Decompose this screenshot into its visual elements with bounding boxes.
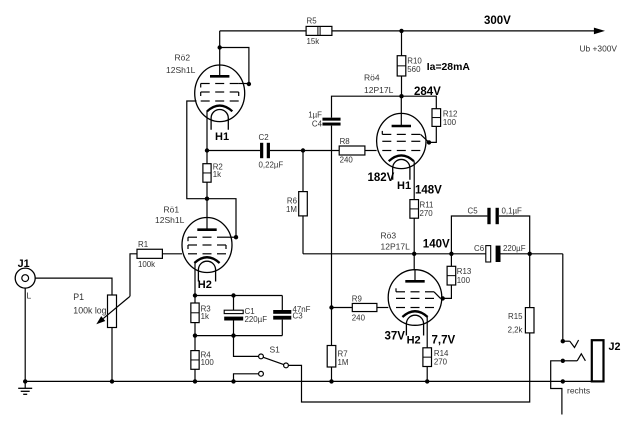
label Ia=28mA [427,62,471,73]
label R9 [352,295,363,304]
label 12P17L Ro3 [381,241,411,251]
svg-text:R8: R8 [340,137,351,146]
capacitor C5 [487,208,498,224]
label Ro2 [175,53,191,63]
label R10 [407,56,422,65]
connector J1 [15,268,35,288]
svg-text:148V: 148V [415,185,442,197]
wire R7 to ground bus [331,367,333,381]
label 240 R8 [340,155,354,164]
label R3 [201,304,212,313]
svg-text:R9: R9 [352,295,363,304]
tube U-Ro2 12Sh1L [195,65,245,130]
label 240 R9 [352,313,366,322]
svg-text:J1: J1 [18,258,30,270]
wire R8 to Ro4 g1 [365,150,377,152]
wire S1 lower contact to bus [234,374,259,382]
resistor R7 [327,346,336,368]
label J1 [18,258,30,270]
resistor R6 [299,192,308,216]
wire cathode node to R2 [206,151,208,164]
svg-text:H2: H2 [198,279,212,291]
label C1 [245,307,255,316]
wire Ro2 anode to 300V rail [219,31,221,65]
label 2,2k [508,325,523,334]
wire C2 to R8 [270,150,339,152]
junction dot Ro4 g2 [427,140,431,144]
svg-text:182V: 182V [368,172,395,184]
wire Ro1 anode lead [206,199,208,218]
wire J1 to P1 [35,278,112,295]
wire 300V rail R5 to arrow [332,30,595,32]
label J2 [609,341,621,353]
resistor R2 [203,164,211,183]
svg-text:100k log: 100k log [73,306,106,316]
wire R4 to bus [194,369,196,381]
svg-text:1k: 1k [213,170,221,179]
wire R1 to P1 wiper [130,254,137,296]
wire 284V node to C4 [332,96,402,117]
svg-text:300V: 300V [484,15,511,27]
wire R9 to Ro3 g1 [377,307,388,309]
svg-text:100: 100 [443,118,457,127]
label 12Sh1L Ro1 [155,215,185,225]
label 1k R2 [213,170,221,179]
label 37V [385,331,406,343]
svg-text:12P17L: 12P17L [364,85,394,95]
label 300V [484,15,511,27]
svg-text:15k: 15k [307,37,320,46]
label 100k R1 [138,260,155,269]
resistor R11 [410,200,419,219]
wire C3 bottom stub [281,320,283,336]
wire J2 ring to other channel [551,361,562,415]
resistor R14 [423,348,432,367]
wire R15 top to 140V node [529,254,531,308]
wire P1 to bus [111,328,113,382]
label L [27,290,32,300]
wire J1 to ground [24,288,26,381]
svg-text:R15: R15 [508,312,523,321]
svg-text:0,1µF: 0,1µF [502,206,523,215]
wire ground bus [25,380,592,382]
junction dot Ro1 g2 [234,235,238,239]
wire R6 to 140V wire [302,216,304,254]
label 7,7V [432,334,456,346]
junction dot Ro2 anode strap [218,45,222,49]
wire R1 to Ro1 g1 [162,253,182,255]
tube U-Ro3 12P17L [388,270,442,336]
resistor R10 [397,56,406,76]
wire C2 node to R6 [302,151,304,192]
capacitor C6 electrolytic [486,246,501,262]
svg-text:R5: R5 [307,16,318,25]
svg-text:220µF: 220µF [503,244,526,253]
wire C1 node to S1 [234,336,259,357]
label C2 [259,133,269,142]
wire Ro2 g1 to Ro1 anode node [187,101,236,237]
label R15 [508,312,523,321]
label R4 [201,350,212,359]
svg-text:S1: S1 [270,344,281,354]
switch S1 blade [263,357,283,364]
label 182V [368,172,395,184]
tube U-Ro4 12P17L [377,113,426,179]
wire C5 to R15 node [499,216,530,254]
wire R13 to Ro3 g2 [434,285,451,298]
label 47nF [293,305,311,314]
junction dot C1 top [231,293,235,297]
label 220uF C1 [245,315,268,324]
label R6 [287,196,298,205]
junction dot R3/R4 node [193,333,197,337]
wire R12 to tube Ro4 g2 [421,126,437,142]
label 15k [307,37,320,46]
svg-text:Rö2: Rö2 [175,53,191,63]
junction dot C5 left branch [449,252,453,256]
label 0,1uF [502,206,523,215]
wire Ro2 cathode lead [206,111,208,151]
wire Ro1 cathode lead [194,263,196,296]
label 0,22uF [259,160,284,169]
wire bottom node to C3 [195,335,282,337]
label 1M [338,358,349,367]
label 1k R3 [201,312,209,321]
resistor R15 [525,308,534,333]
wire R11 to 140V node [413,218,415,254]
label R7 [338,349,348,358]
label 148V [415,185,442,197]
label 1M R6 [286,205,297,214]
label H2 Ro1 [198,279,212,291]
svg-text:1k: 1k [201,312,209,321]
svg-text:1µF: 1µF [308,110,322,119]
wire 140V to R13 [450,254,452,266]
label 220uF C6 [503,244,526,253]
wire cathode node to C3 [195,295,282,297]
junction dot S1/bus [231,379,235,383]
wire C1 bottom stub [233,321,235,336]
junction dot Ro2 cathode [205,148,209,152]
resistor R4 [191,351,199,370]
wire 284V node to R12 [402,96,437,109]
svg-text:0,22µF: 0,22µF [259,160,284,169]
label 100 R13 [457,276,471,285]
label Ub +300V [580,44,618,54]
junction dot R4/bus [193,379,197,383]
label H1 Ro2 [215,131,229,143]
junction dot 284V node [399,94,403,98]
junction dot 300V/R10 [399,29,403,33]
svg-text:H1: H1 [397,180,411,192]
resistor R3 [191,303,199,323]
svg-text:C3: C3 [293,312,304,321]
svg-text:rechts: rechts [567,386,590,396]
svg-text:R6: R6 [287,196,298,205]
label R8 [340,137,351,146]
svg-text:1M: 1M [286,205,297,214]
svg-text:140V: 140V [423,239,450,251]
svg-text:R11: R11 [420,201,434,210]
resistor R13 [447,266,456,285]
label C3 [293,312,304,321]
jack J2 body [592,340,604,381]
junction dot Ro1 cathode [193,293,197,297]
resistor R1 [137,249,162,258]
svg-text:12Sh1L: 12Sh1L [166,65,196,75]
label S1 [270,344,281,354]
junction dot J1/bus [23,379,27,383]
junction dot J2 sleeve [561,379,565,383]
label 284V [414,86,441,98]
potentiometer P1 [96,295,130,328]
tube U-Ro1 12Sh1L [182,218,232,282]
svg-text:C6: C6 [474,244,485,253]
wire C3 top stub [281,296,283,311]
svg-text:L: L [27,290,32,300]
svg-text:Rö3: Rö3 [381,230,397,240]
wire C6 to J2 corner [501,253,563,255]
svg-text:1M: 1M [338,358,349,367]
svg-text:R7: R7 [338,349,348,358]
label Ro1 [164,205,180,215]
label Ro3 [381,230,397,240]
wire R3 to bottom node [194,323,196,336]
label R5 [307,16,318,25]
junction dot Ro1 anode [205,197,209,201]
svg-text:R13: R13 [457,267,472,276]
switch S1 common contact [284,363,289,368]
arrowhead Ub +300V [594,28,605,35]
svg-text:2,2k: 2,2k [508,325,523,334]
ground symbol [18,381,32,394]
label 270 [420,209,434,218]
label 270 R14 [434,357,448,366]
label C5 [468,206,479,215]
svg-text:C2: C2 [259,133,269,142]
wire C1 top stub [233,296,235,311]
svg-text:7,7V: 7,7V [432,334,456,346]
svg-text:C4: C4 [312,120,323,129]
switch S1 lower contact [259,371,264,376]
svg-text:C5: C5 [468,206,479,215]
svg-text:P1: P1 [73,292,84,302]
capacitor C3 [273,310,291,320]
svg-text:H2: H2 [407,335,421,347]
label 1uF [308,110,322,119]
svg-text:37V: 37V [385,331,406,343]
svg-text:100: 100 [457,276,471,285]
label R13 [457,267,472,276]
junction dot C4/R9/R7 [329,305,333,309]
wire 140V node to J2 tip [562,254,564,341]
junction dot P1/bus [110,379,114,383]
svg-text:R12: R12 [443,109,457,118]
wire R9 junction to R9 [332,307,353,309]
svg-text:240: 240 [352,313,366,322]
junction dot R14/bus [425,379,429,383]
resistor R8 [339,146,365,155]
label 12P17L Ro4 [364,85,394,95]
svg-text:Ia=28mA: Ia=28mA [427,62,471,73]
label C6 [474,244,485,253]
label R12 [443,109,457,118]
label C4 [312,120,323,129]
resistor R5 [306,26,332,35]
svg-text:R1: R1 [138,240,148,249]
wire node to R4 [194,336,196,351]
wire Ro4 anode lead [400,96,402,113]
wire C4 to R9 node and R7 [331,126,333,346]
label R14 [434,349,449,358]
junction dot J2 tip [561,339,565,343]
svg-text:220µF: 220µF [245,315,268,324]
wire 300V rail from Ro2 anode to R5 [220,30,306,32]
wire Ro3 cathode to R14 [426,317,428,348]
svg-text:560: 560 [407,65,421,74]
wire S1 common to R15 [288,333,529,402]
wire R14 to bus [426,367,428,382]
wire Ro3 anode lead [413,254,415,270]
capacitor C4 [322,118,340,126]
svg-text:J2: J2 [609,341,621,353]
label P1 [73,292,84,302]
label R1 [138,240,148,249]
label R2 [213,163,223,172]
wire 140V [303,253,486,255]
junction dot Ro2 g2 [247,82,251,86]
label 100 [443,118,457,127]
svg-text:Rö4: Rö4 [364,73,380,83]
label 100 R4 [201,358,215,367]
jack J2 ring contact [563,354,586,361]
svg-text:270: 270 [420,209,434,218]
svg-text:240: 240 [340,155,354,164]
resistor R9 [352,303,377,311]
svg-text:100k: 100k [138,260,155,269]
svg-text:Rö1: Rö1 [164,205,180,215]
label 100k log [73,306,106,316]
svg-text:270: 270 [434,357,448,366]
svg-text:284V: 284V [414,86,441,98]
resistor R12 [432,109,441,127]
wire Ro2 g2 strap [220,48,249,85]
wire 300V to R10 [401,31,403,56]
svg-text:100: 100 [201,358,215,367]
junction dot C5/R15 [528,252,532,256]
label R11 [420,201,434,210]
svg-text:12P17L: 12P17L [381,241,411,251]
junction dot C1 bottom [231,333,235,337]
junction dot C2/R6 [301,148,305,152]
capacitor C2 [260,143,270,158]
wire Ro4 cathode to R11 [413,161,415,199]
svg-text:Ub +300V: Ub +300V [580,44,618,54]
wire 140V to C5 [451,216,487,254]
wire R2 to Ro1 anode node [206,182,208,199]
label 140V [423,239,450,251]
svg-text:12Sh1L: 12Sh1L [155,215,185,225]
label 560 [407,65,421,74]
junction dot 140V/anode Ro3 [412,252,416,256]
label 12Sh1L Ro2 [166,65,196,75]
junction dot Ro3 g2 [441,296,445,300]
wire R3 to cathode node [194,296,196,304]
label rechts [567,386,590,396]
svg-text:H1: H1 [215,131,229,143]
wire R10 to 284V node [401,76,403,96]
jack J2 tip contact [563,340,579,348]
label H2 Ro3 [407,335,421,347]
wire Ro2 cathode to C2 [207,150,260,152]
switch S1 throw contact [259,354,264,359]
label Ro4 [364,73,380,83]
label H1 Ro4 [397,180,411,192]
capacitor C1 electrolytic [224,310,243,320]
junction dot R7/bus [329,379,333,383]
junction dot J2 ring [561,359,565,363]
